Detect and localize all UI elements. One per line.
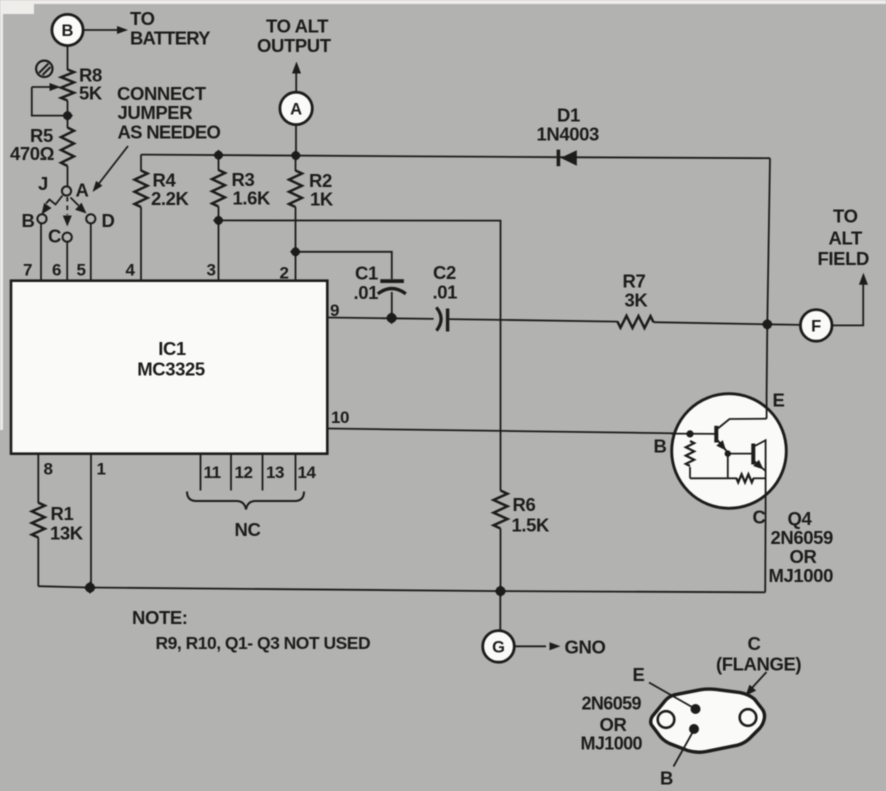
svg-text:13: 13 [266,463,284,482]
label CONNECT JUMPER AS NEEDED [117,83,220,143]
TO-3 mounting hole left [658,711,675,728]
package part labels 2N6059 OR MJ1000 [581,694,643,754]
pin 9 wire [328,318,801,325]
Q4 collector lead to rail [764,508,766,592]
pin 10 number [331,408,349,427]
svg-text:ALT: ALT [829,228,863,249]
svg-text:470Ω: 470Ω [10,143,55,164]
Q4 wire to output transistor base [728,454,752,479]
svg-text:2.2K: 2.2K [151,188,190,209]
junction top rail / R3 [213,150,224,161]
svg-text:1K: 1K [310,189,334,210]
svg-text:14: 14 [298,463,317,482]
Q4 part labels [769,508,834,586]
svg-text:NC: NC [235,519,261,540]
resistor R7 3K [618,271,654,329]
svg-text:IC1: IC1 [158,338,186,359]
Q4 output emitter with arrow [753,460,765,471]
junction C1 / pin9 wire [386,312,398,324]
right vertical wire D1 corner to transistor E [767,158,770,395]
node G [483,631,515,663]
svg-text:GNO: GNO [565,637,606,658]
svg-text:E: E [633,664,645,685]
svg-text:1N4003: 1N4003 [537,124,600,145]
TO-3 pin B dot [689,724,699,734]
TO-3 package outline [651,689,765,752]
NC pins 11 12 13 14 [201,454,317,490]
label TO ALT OUTPUT [257,16,332,57]
svg-text:B: B [62,22,74,40]
Q4 driver collector [718,419,767,429]
jumper point D [86,214,95,223]
svg-text:6: 6 [52,261,61,280]
resistor R5 470ohm [10,125,74,166]
svg-text:TO: TO [833,206,858,227]
svg-text:2N6059: 2N6059 [582,694,642,714]
junction rail / pin 1 [84,582,96,594]
svg-text:OR: OR [790,546,817,567]
IC1 MC3325 box [11,281,327,454]
svg-text:MJ1000: MJ1000 [769,565,834,586]
svg-text:R9, R10, Q1- Q3 NOT USED: R9, R10, Q1- Q3 NOT USED [156,633,371,653]
jumper wire A to B with arrow [42,196,63,215]
svg-text:C2: C2 [433,262,456,283]
node F [800,310,832,342]
svg-text:R6: R6 [513,494,536,515]
wire rail to node G [499,591,501,631]
arrow A to D [71,198,87,214]
jumper point A [62,186,71,195]
pin 1 wire [91,454,106,587]
transistor Q4 circle [672,394,787,509]
wire R8 to R5 [67,101,69,129]
svg-text:TO ALT: TO ALT [266,16,329,37]
svg-text:2: 2 [280,264,289,283]
svg-text:C: C [48,226,61,247]
svg-text:A: A [76,180,89,201]
wire C1 tap [296,252,392,279]
Q4 internal base resistor [686,441,694,478]
pin 8 wire / resistor R1 13K [32,454,84,586]
B pin leader [660,733,693,789]
svg-text:5K: 5K [79,83,103,104]
capacitor C1 .01 [354,263,406,319]
node B [52,14,83,45]
svg-text:OUTPUT: OUTPUT [257,35,332,56]
resistor R6 1.5K [494,491,551,592]
svg-text:.01: .01 [433,282,458,303]
Q4 internal emitter resistor [737,474,754,482]
svg-text:.01: .01 [354,282,379,303]
svg-text:JUMPER: JUMPER [118,102,193,123]
Q4 emitter lead E inside [766,395,768,419]
NOTE text [132,607,370,653]
label C (jumper) [48,226,61,247]
svg-text:2N6059: 2N6059 [771,527,834,548]
junction rail / R6 [494,585,506,597]
svg-text:1.5K: 1.5K [512,515,551,536]
svg-text:B: B [654,436,667,457]
label TO ALT FIELD [818,206,869,270]
junction F line / right vertical [761,318,773,330]
E pin leader [633,664,693,707]
Q4 output transistor base bar [751,444,755,465]
svg-text:MC3325: MC3325 [137,359,205,380]
TO-3 pin E dot [691,704,701,714]
svg-text:(FLANGE): (FLANGE) [716,654,801,675]
label B (jumper) [22,210,35,231]
svg-text:7: 7 [23,261,32,280]
resistor R2 1K [289,155,334,281]
label A [76,180,89,201]
top rail wire [141,155,770,159]
svg-text:J: J [38,173,48,194]
pin 10 wire to transistor base [328,429,714,434]
dashed arrow A to C [63,197,72,227]
svg-text:10: 10 [331,408,349,427]
leader arrow to jumper area [93,146,129,192]
label TO BATTERY [130,8,211,49]
svg-text:OR: OR [600,714,627,735]
label J [38,173,48,194]
NC brace [187,492,304,541]
Q4 base junction dot [686,430,693,437]
svg-text:TO: TO [130,8,155,29]
mid wire R3 bottom to R6 branch [219,220,501,490]
potentiometer R8 5K [61,65,103,104]
junction pin2 line / C1 tap [290,246,301,257]
wire B to battery arrow [84,26,129,34]
arrow to alt output [292,62,301,93]
svg-text:E: E [773,390,785,411]
svg-text:AS NEEDEO: AS NEEDEO [118,122,221,143]
svg-text:C: C [748,633,761,654]
svg-text:B: B [22,210,35,231]
Q4 driver transistor base bar [714,426,718,443]
wire R5 to jumper point A [67,166,69,187]
junction R3 bottom / mid wire [213,215,224,226]
ground rail [38,586,765,592]
Q4 internal node dot [725,450,731,456]
pin 9 number [330,301,339,320]
diode D1 1N4003 [537,105,600,167]
svg-text:5: 5 [77,261,86,280]
svg-text:1: 1 [97,460,106,479]
wire node B down to R8 [67,46,69,70]
C FLANGE label with arrow [716,633,801,696]
svg-text:D: D [102,210,115,231]
svg-text:3: 3 [207,261,216,280]
label D [102,210,115,231]
svg-text:11: 11 [204,463,221,482]
wire jumper C to pin 6 [66,242,68,281]
svg-text:F: F [811,317,821,335]
arrow GND [515,642,561,650]
svg-text:3K: 3K [625,290,649,311]
wire node A to top rail [295,125,297,155]
Q4 output collector [755,440,766,446]
R8 wiper arrow and feedback loop [32,83,64,116]
screw adjust symbol [36,61,52,77]
node A [280,92,312,124]
svg-text:FIELD: FIELD [818,248,869,269]
wire jumper D to pin 5 [90,223,92,281]
svg-text:CONNECT: CONNECT [117,83,207,104]
svg-text:1.6K: 1.6K [233,188,272,209]
svg-text:4: 4 [126,261,136,280]
Q4 labels E B C [654,390,785,528]
resistor R3 1.6K [212,155,271,281]
svg-text:D1: D1 [557,105,580,126]
svg-text:12: 12 [235,463,253,482]
junction top rail / node A [290,150,301,161]
svg-text:NOTE:: NOTE: [132,607,188,628]
Q4 internal bottom rail [690,477,766,479]
junction R8 bottom / loop [62,110,73,121]
TO-3 mounting hole right [740,709,757,726]
jumper point B [37,214,46,223]
Q4 driver emitter with arrow [716,440,728,452]
pin numbers 7 6 5 4 3 2 [23,261,289,283]
wire node F to alt field arrow [832,273,868,326]
svg-text:C1: C1 [355,263,378,284]
svg-text:C: C [753,507,766,528]
svg-text:B: B [660,768,673,787]
svg-text:9: 9 [330,301,339,320]
svg-text:13K: 13K [50,523,84,544]
svg-text:Q4: Q4 [788,508,813,529]
capacitor C2 .01 [433,262,458,332]
svg-text:BATTERY: BATTERY [130,28,211,49]
svg-text:R1: R1 [51,503,74,524]
jumper point C [63,233,72,242]
svg-text:8: 8 [44,460,53,479]
Q4 base wire inside [671,433,716,435]
label GND [565,637,606,658]
svg-text:R7: R7 [623,271,646,292]
svg-text:A: A [290,100,302,118]
resistor R4 2.2K [135,155,190,281]
svg-text:G: G [492,638,505,656]
wire jumper B to pin 7 [40,223,42,281]
Q4 collector lead inside [765,440,767,508]
svg-text:MJ1000: MJ1000 [581,734,643,754]
